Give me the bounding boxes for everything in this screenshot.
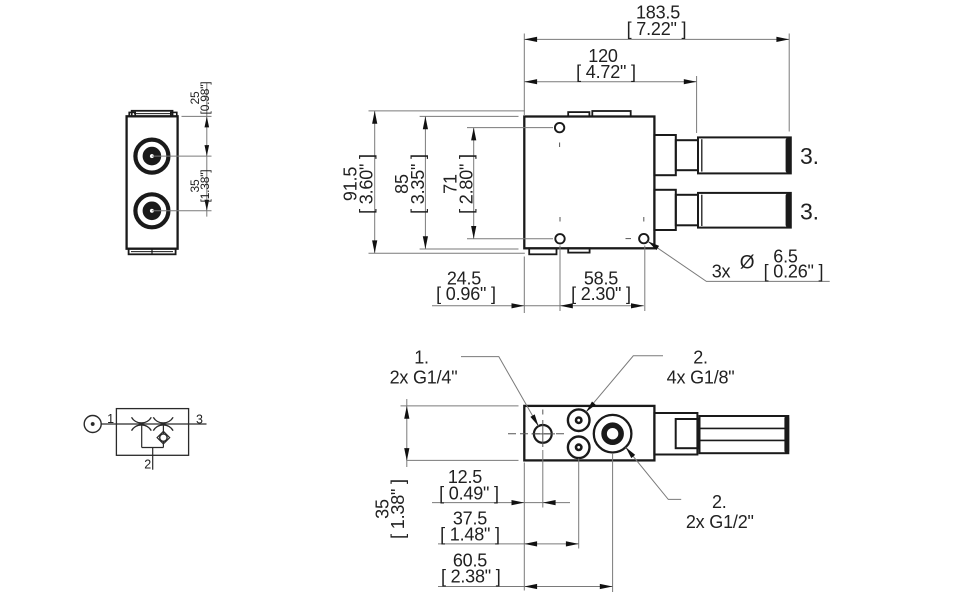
adapter inner square [676, 419, 699, 448]
svg-text:[ 2.80" ]: [ 2.80" ] [456, 154, 476, 214]
dimension 25 [0.98"] [188, 82, 212, 217]
dimension 35 [1.38"] (left view) [188, 170, 212, 211]
left end view: top cap [129, 111, 177, 117]
G1/8 hole upper [568, 409, 590, 431]
leader 3 (2x G1/2") [626, 447, 754, 532]
svg-text:[ 3.35" ]: [ 3.35" ] [408, 154, 428, 214]
top view: body [524, 117, 654, 249]
hex rod [700, 416, 790, 453]
schematic: enclosure box [116, 409, 188, 456]
svg-text:[ 2.38" ]: [ 2.38" ] [441, 566, 501, 586]
svg-text:2.: 2. [693, 348, 708, 368]
dimension 91.5 [3.60"] [341, 111, 525, 253]
dimension 35 [1.38"] (bottom view) [373, 399, 519, 539]
svg-text:[0.98"]: [0.98"] [198, 82, 212, 115]
svg-text:[ 0.26" ]: [ 0.26" ] [764, 262, 824, 282]
bottom view horizontal centerline [508, 433, 568, 435]
schematic: valve seat A [132, 417, 152, 430]
left end view: bottom cap [129, 249, 176, 255]
leader 1 (2x G1/4") [390, 348, 539, 427]
left view top extension line [182, 115, 212, 117]
lower fitting: step [654, 190, 675, 230]
schematic: port 2 wire [152, 448, 154, 470]
lower fitting: neck [676, 195, 698, 226]
schematic: main flow line 1-3 [101, 423, 206, 425]
svg-text:[ 7.22" ]: [ 7.22" ] [627, 19, 687, 39]
bottom view: body [524, 406, 654, 461]
svg-text:[ 3.60" ]: [ 3.60" ] [356, 154, 376, 214]
top view: top tab 2 [592, 111, 630, 117]
upper fitting: neck [676, 140, 698, 170]
dimension 60.5 [2.38"] [438, 453, 613, 592]
G1/2 port (large) [594, 415, 632, 453]
dimension 71 [2.80"] [441, 128, 554, 239]
leader 2 (4x G1/8") [586, 348, 735, 413]
schematic: wire below check valve [162, 441, 164, 447]
top view: bottom tab 1 [529, 248, 556, 254]
dimension 183.5 [7.22"] [524, 3, 789, 132]
svg-text:2: 2 [144, 458, 151, 472]
dimension 120 [4.72"] [524, 46, 696, 133]
schematic: wire from seat B to check valve [162, 424, 164, 434]
left end view: body [127, 116, 178, 248]
schematic: source circle with dot [84, 416, 101, 433]
adapter step (bottom view) [654, 413, 697, 455]
svg-text:3.: 3. [800, 199, 819, 225]
svg-text:3.: 3. [800, 143, 819, 169]
lower fitting: barrel [698, 193, 791, 228]
top view: bottom tab 2 [568, 248, 589, 252]
svg-text:[ 1.38" ]: [ 1.38" ] [388, 479, 408, 539]
port P2 centerline [152, 210, 212, 212]
svg-text:[ 2.30" ]: [ 2.30" ] [571, 284, 631, 304]
svg-text:2.: 2. [712, 492, 727, 512]
upper fitting: step [654, 135, 675, 175]
svg-text:2x G1/4": 2x G1/4" [390, 367, 458, 387]
svg-text:4x G1/8": 4x G1/8" [667, 367, 735, 387]
svg-text:[ 1.48" ]: [ 1.48" ] [440, 524, 500, 544]
port P1 centerline [152, 155, 212, 157]
svg-text:1: 1 [107, 412, 114, 426]
bolt hole H2 (bottom-left) [555, 217, 564, 244]
svg-text:1.: 1. [414, 348, 429, 368]
port circle P1 (upper) [135, 140, 168, 173]
dimension 85 [3.35"] [392, 116, 518, 249]
schematic: valve seat B [153, 417, 173, 430]
svg-text:[1.38"]: [1.38"] [198, 170, 212, 203]
svg-text:Ø: Ø [740, 253, 755, 274]
svg-text:[ 4.72" ]: [ 4.72" ] [576, 62, 636, 82]
bolt hole H3 (bottom-right) [626, 217, 649, 243]
top view: top tab 1 [568, 112, 589, 116]
bolt hole H1 (top-left) [555, 123, 564, 147]
svg-text:2x G1/2": 2x G1/2" [686, 512, 754, 532]
dimension 12.5 [0.49"] [432, 450, 570, 591]
svg-text:[ 0.96" ]: [ 0.96" ] [436, 284, 496, 304]
dimension 24.5 [0.96"] [432, 257, 560, 314]
upper fitting: barrel [698, 137, 791, 173]
schematic: check valve (ball in diamond) [157, 431, 170, 444]
schematic: branch wire from seat A [141, 424, 143, 448]
port circle P2 (lower) [135, 194, 168, 227]
svg-text:[ 0.49" ]: [ 0.49" ] [439, 483, 499, 503]
schematic: bottom connector wire [142, 447, 164, 449]
G1/8 hole lower [568, 437, 590, 459]
svg-text:3: 3 [196, 413, 203, 427]
dimension 58.5 [2.30"] [560, 246, 645, 312]
G1/4 port hole (left) [532, 410, 556, 448]
svg-text:3x: 3x [712, 262, 731, 282]
dimension 37.5 [1.48"] [438, 459, 579, 549]
hole callout 3x Ø6.5 [0.26"] leader [648, 241, 830, 281]
